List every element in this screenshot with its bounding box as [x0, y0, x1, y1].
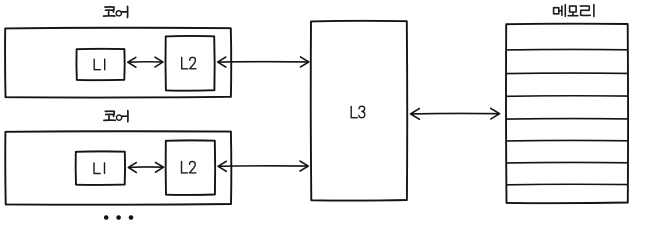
memory row line 6 — [506, 161, 627, 164]
memory row line 1 — [506, 48, 627, 51]
core box 1 — [5, 28, 231, 98]
wire arrow L1-L2 (core 2, double head) — [128, 162, 163, 172]
text L2 (core 2) — [182, 161, 196, 173]
cache box L1 (core 2) — [76, 151, 125, 185]
memory box — [506, 24, 628, 204]
memory row line 2 — [506, 72, 627, 75]
memory row line 4 — [506, 118, 627, 121]
label 코어 (core 2 title) — [104, 111, 128, 122]
wire arrow L2-L3 (core 2, double head) — [218, 161, 308, 171]
cache box L1 (core 1) — [76, 49, 124, 80]
cache box L3 — [311, 21, 407, 201]
memory row line 7 — [506, 183, 627, 186]
label 코어 (core 1 title) — [104, 6, 128, 17]
cache box L2 (core 2) — [166, 140, 216, 195]
wire arrow L2-L3 (core 1, double head) — [218, 57, 309, 67]
text L2 (core 1) — [182, 57, 196, 69]
cache box L2 (core 1) — [165, 36, 214, 91]
text L3 — [351, 106, 365, 118]
wire arrow L3-memory (double head) — [411, 108, 500, 119]
wire arrow L1-L2 (core 1, double head) — [128, 57, 163, 67]
label 메모리 (memory title) — [554, 5, 594, 17]
core box 2 — [5, 131, 231, 204]
text L1 (core 1) — [94, 59, 105, 69]
memory row line 5 — [506, 139, 627, 142]
memory row line 3 — [506, 95, 627, 98]
ellipsis (more cores) — [104, 215, 133, 220]
text L1 (core 2) — [94, 163, 105, 174]
